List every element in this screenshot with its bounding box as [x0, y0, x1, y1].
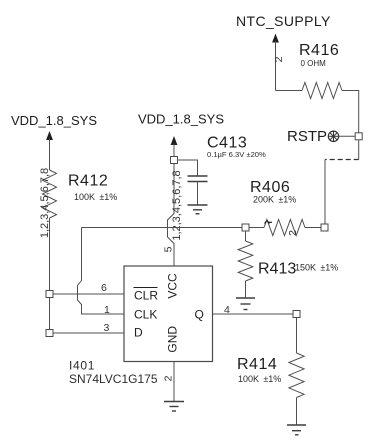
value label R412	[68, 173, 117, 203]
svg-text:VDD_1.8_SYS: VDD_1.8_SYS	[11, 113, 97, 128]
value label R406	[250, 179, 296, 205]
IC pin name CLR with overline	[134, 288, 159, 303]
ground under R413	[236, 298, 255, 310]
svg-text:C413: C413	[207, 135, 247, 152]
wire CLK net horizontal	[82, 227, 243, 229]
svg-text:1,2,3,4,5,6,7,8: 1,2,3,4,5,6,7,8	[171, 170, 183, 240]
resistor R416	[302, 83, 342, 99]
power arrow NTC_SUPPLY	[272, 34, 279, 91]
svg-text:RSTP: RSTP	[287, 128, 327, 145]
resistor R412	[43, 170, 57, 218]
junction square VDD middle	[171, 157, 178, 164]
wire VDD junction down with jog to VCC	[168, 164, 175, 267]
junction square Q	[293, 311, 300, 318]
svg-text:200K ±1%: 200K ±1%	[253, 195, 296, 205]
svg-text:6: 6	[101, 282, 107, 294]
wire R412 down	[49, 218, 51, 333]
wire Q junction down	[296, 318, 298, 354]
ground under I401	[164, 402, 184, 412]
wire junction to R406	[249, 227, 264, 229]
svg-text:R414: R414	[237, 356, 277, 373]
resistor R414	[289, 353, 304, 398]
port symbol RSTP	[328, 131, 338, 141]
wire R413 bottom	[245, 281, 247, 298]
wire Q output	[213, 313, 294, 315]
svg-text:0.1µF 6.3V ±20%: 0.1µF 6.3V ±20%	[207, 150, 266, 159]
svg-text:R412: R412	[68, 173, 108, 190]
ground under R414	[287, 425, 306, 435]
ground under C413	[188, 205, 208, 214]
svg-text:R413: R413	[258, 261, 296, 278]
wire R414 bottom	[296, 398, 298, 425]
capacitor C413	[188, 176, 208, 205]
wire down to R406 junction	[324, 160, 326, 225]
value label R413	[258, 261, 338, 278]
value label R416	[299, 42, 339, 68]
wire GND pin 2	[173, 362, 175, 402]
svg-text:R416: R416	[299, 42, 339, 59]
svg-text:GND: GND	[166, 326, 180, 353]
op IC I401 box	[124, 266, 213, 362]
wire below RSTP junction	[358, 140, 360, 160]
svg-text:CLK: CLK	[134, 308, 157, 322]
svg-text:1: 1	[104, 304, 110, 316]
svg-text:R406: R406	[250, 179, 290, 196]
wire R413 top	[245, 231, 247, 241]
wire junction to C413	[178, 160, 198, 176]
svg-text:150K ±1%: 150K ±1%	[295, 263, 338, 273]
svg-text:2: 2	[273, 56, 285, 62]
wire to D pin 3	[53, 332, 124, 334]
resistor R413	[238, 241, 253, 281]
svg-text:3: 3	[104, 322, 110, 334]
svg-text:VCC: VCC	[166, 273, 180, 299]
value label C413	[207, 135, 266, 160]
IC refdes I401	[69, 359, 158, 387]
svg-text:Q: Q	[195, 308, 204, 322]
svg-text:SN74LVC1G175: SN74LVC1G175	[69, 372, 158, 386]
wire CLK net vertical with jog	[78, 228, 125, 315]
wire R416 to corner	[342, 91, 359, 133]
value label R414	[237, 356, 281, 384]
power arrow VDD middle	[171, 136, 178, 157]
svg-text:VDD_1.8_SYS: VDD_1.8_SYS	[138, 112, 224, 127]
svg-text:D: D	[134, 326, 143, 340]
junction square R406 left	[242, 224, 249, 231]
svg-text:2: 2	[162, 375, 174, 381]
junction square RSTP	[355, 133, 362, 140]
pin 1 mark of R406	[265, 221, 273, 224]
svg-text:100K ±1%: 100K ±1%	[74, 192, 117, 202]
svg-text:2: 2	[287, 230, 299, 236]
svg-text:NTC_SUPPLY: NTC_SUPPLY	[236, 13, 331, 29]
svg-text:I401: I401	[69, 359, 95, 373]
junction square CLR	[46, 291, 53, 298]
svg-text:100K ±1%: 100K ±1%	[238, 374, 281, 384]
dashed wire segment	[325, 159, 359, 161]
wire NTC corner to R416	[276, 90, 303, 92]
svg-text:5: 5	[162, 246, 174, 252]
power arrow VDD left	[46, 131, 53, 170]
wire to CLR pin 6	[53, 293, 124, 295]
junction square R406 right	[321, 224, 328, 231]
resistor R406	[264, 220, 305, 236]
svg-text:0 OHM: 0 OHM	[301, 59, 327, 68]
wire RSTP to junction	[339, 135, 356, 137]
wire R406 to right junction	[305, 227, 321, 229]
junction square D	[46, 330, 53, 337]
svg-text:CLR: CLR	[134, 289, 158, 303]
